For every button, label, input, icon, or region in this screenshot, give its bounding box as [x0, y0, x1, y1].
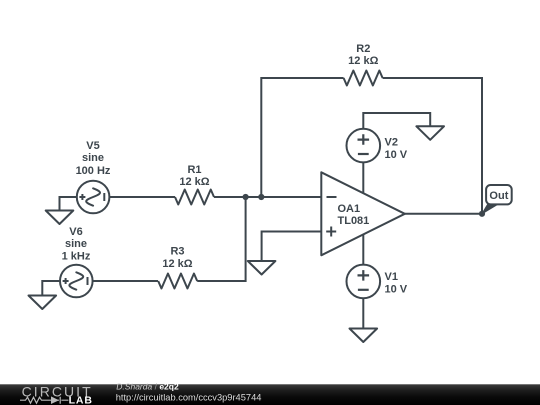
wire plus input to ground [262, 232, 322, 262]
svg-text:http://circuitlab.com/cccv3p9r: http://circuitlab.com/cccv3p9r45744 [116, 393, 262, 403]
source V6 [60, 265, 93, 298]
op-amp OA1 [321, 172, 405, 255]
source V5 [77, 181, 110, 214]
source V1 [347, 265, 381, 299]
wire op-amp bottom to V1 [362, 235, 364, 265]
resistor R1 [175, 190, 214, 205]
wire node B up to R2 [261, 78, 343, 197]
wire node A down to R3 row [197, 197, 245, 281]
svg-text:10 V: 10 V [385, 284, 408, 296]
Out flag pointer [482, 204, 498, 214]
svg-text:V6: V6 [69, 226, 82, 238]
svg-text:Out: Out [489, 190, 508, 202]
junction node B [258, 194, 264, 200]
svg-text:12 kΩ: 12 kΩ [348, 55, 378, 67]
op-amp minus symbol [327, 196, 337, 198]
Out flag box [486, 185, 512, 204]
svg-text:R1: R1 [187, 164, 201, 176]
wire V5 left to ground [60, 197, 77, 211]
svg-text:sine: sine [65, 238, 87, 250]
wire V6 left to ground [42, 281, 60, 296]
wire V2 top to ground [363, 113, 430, 129]
resistor R2 [344, 71, 383, 86]
wire V5 to R1 [109, 196, 175, 198]
svg-text:V2: V2 [385, 136, 398, 148]
svg-text:R2: R2 [356, 43, 370, 55]
ground for V2 [416, 126, 444, 140]
junction node Out [479, 211, 485, 217]
svg-text:V5: V5 [86, 140, 99, 152]
source V2 [347, 129, 381, 163]
ground at plus input [248, 261, 276, 275]
resistor R3 [158, 274, 197, 289]
ground for V5 [46, 211, 74, 225]
logo resistor-diode glyph [20, 397, 68, 404]
wire V1 to ground [362, 298, 364, 328]
svg-text:TL081: TL081 [338, 215, 370, 227]
svg-text:12 kΩ: 12 kΩ [162, 258, 192, 270]
ground for V1 [350, 329, 378, 343]
wire R1 to op-amp minus input [214, 196, 321, 198]
wire V2 to op-amp top [362, 162, 364, 193]
svg-text:100 Hz: 100 Hz [76, 165, 111, 177]
wire R2 to output node [383, 78, 482, 214]
svg-text:10 V: 10 V [385, 149, 408, 161]
wire V6 to R3 [93, 280, 158, 282]
svg-text:sine: sine [82, 152, 104, 164]
svg-text:R3: R3 [170, 246, 184, 258]
op-amp plus symbol [326, 227, 336, 237]
svg-text:V1: V1 [385, 271, 398, 283]
svg-text:LAB: LAB [69, 395, 93, 405]
junction node A [243, 194, 249, 200]
svg-text:12 kΩ: 12 kΩ [179, 176, 209, 188]
svg-text:OA1: OA1 [338, 203, 361, 215]
svg-text:D.Sharda / e2q2: D.Sharda / e2q2 [116, 382, 179, 392]
wire op-amp output [405, 213, 482, 215]
ground for V6 [29, 296, 57, 310]
svg-text:1 kHz: 1 kHz [62, 250, 91, 262]
